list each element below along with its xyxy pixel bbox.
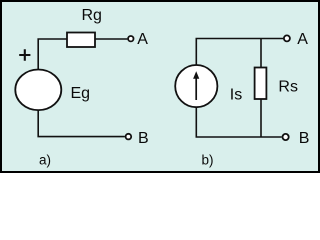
wire junction down to resistor Rs <box>260 39 262 68</box>
svg-text:A: A <box>297 31 308 48</box>
border frame <box>1 1 319 172</box>
svg-text:B: B <box>138 130 149 147</box>
terminal A (open circle) <box>284 35 290 41</box>
wire from source top to terminal A <box>196 39 283 66</box>
wire from source top to resistor Rg <box>38 39 66 70</box>
svg-text:A: A <box>137 31 148 48</box>
wire from source bottom to terminal B <box>38 110 125 137</box>
svg-text:b): b) <box>202 153 214 168</box>
resistor Rs (vertical) <box>255 68 267 100</box>
svg-text:Is: Is <box>230 86 242 103</box>
wire from Rg to terminal A <box>95 38 127 40</box>
svg-text:B: B <box>299 130 310 147</box>
svg-text:Rs: Rs <box>278 79 298 96</box>
wire from source bottom to terminal B <box>196 107 281 137</box>
current arrow <box>195 78 197 101</box>
terminal B (open circle) <box>126 134 132 140</box>
resistor Rg <box>67 33 95 48</box>
svg-text:a): a) <box>39 153 51 168</box>
current source Is (circle) <box>175 65 217 107</box>
svg-text:Rg: Rg <box>82 7 102 24</box>
voltage source Eg (circle) <box>15 70 61 111</box>
wire from Rs bottom to bottom rail <box>260 99 262 137</box>
svg-text:Eg: Eg <box>71 85 91 102</box>
terminal B (open circle) <box>283 134 289 140</box>
terminal A (open circle) <box>128 36 133 41</box>
polarity + sign <box>19 49 30 60</box>
